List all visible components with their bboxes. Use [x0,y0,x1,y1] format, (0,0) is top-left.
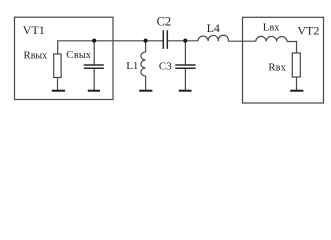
node junction dot at L1/C2 [144,39,148,43]
node junction dot at C2/C3 [183,39,187,43]
svg-text:Rвых: Rвых [24,49,48,61]
capacitor Cvyh stem top [93,41,95,65]
capacitor Cvyh bottom plate [84,67,104,69]
wire L1 top stub [145,41,147,52]
svg-text:VT2: VT2 [297,24,319,38]
capacitor C2 left plate [162,30,164,49]
transistor block VT1 box [15,17,114,99]
ground bar under Rvyh [52,90,65,92]
wire Rvh to ground [296,77,298,90]
ground bar under L1 [139,90,152,92]
svg-text:Lвх: Lвх [263,21,280,33]
resistor Rvh body [292,53,300,77]
resistor Rvyh body [54,54,61,78]
capacitor Cvyh top plate [84,64,104,66]
wire C2 right plate to VT2 corner [167,41,296,53]
transistor block VT2 box [243,17,324,103]
ground bar under Rvh [290,90,303,92]
capacitor C3 top plate [175,64,195,66]
capacitor Cvyh stem bottom [93,69,95,91]
svg-text:Свых: Свых [66,49,91,61]
wire main line left (node A to C2 left plate) [58,41,164,54]
svg-text:C2: C2 [157,15,172,29]
node junction dot at Cvyh [92,39,96,43]
capacitor C2 right plate [166,30,168,49]
svg-text:Rвх: Rвх [268,62,286,74]
capacitor C3 stem bottom [184,69,186,91]
ground bar under C3 [179,90,192,92]
wire L1 to ground [145,76,147,90]
inductor L1 coil [141,52,146,76]
svg-text:VT1: VT1 [23,23,45,37]
wire Rvyh to ground [57,78,59,91]
svg-text:L1: L1 [126,60,138,72]
svg-text:C3: C3 [159,60,172,72]
inductor L4 coil [198,35,228,41]
capacitor C3 stem top [184,41,186,65]
inductor Lvh coil [256,36,287,41]
ground bar under Cvyh [88,90,100,92]
capacitor C3 bottom plate [175,67,195,69]
svg-text:L4: L4 [207,21,220,35]
